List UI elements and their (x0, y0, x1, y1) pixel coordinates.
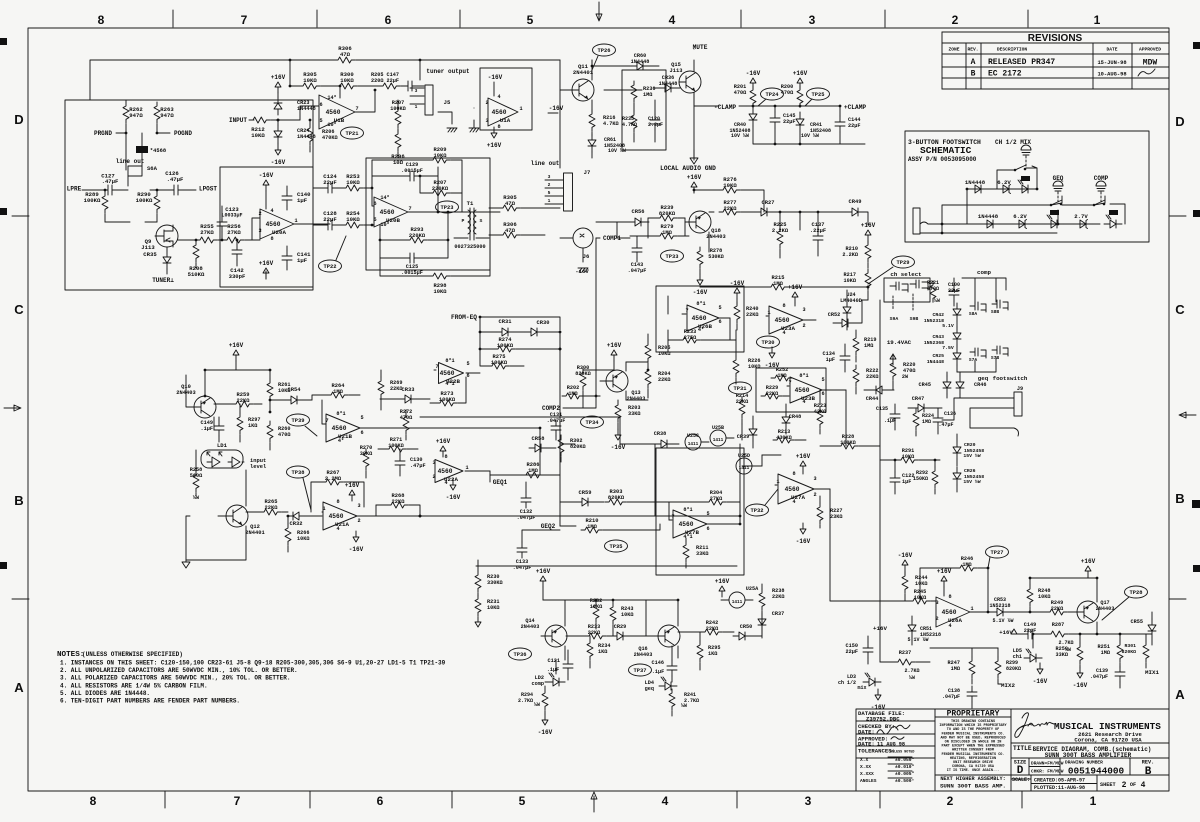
svg-text:3: 3 (813, 476, 816, 482)
resistor R256 (223, 237, 244, 243)
svg-text:U25A: U25A (746, 586, 759, 592)
bottom center arrow (591, 792, 597, 812)
svg-text:CR59: CR59 (579, 490, 592, 496)
svg-text:R301: R301 (1124, 643, 1136, 649)
power +16V Q18 (691, 182, 697, 193)
footswitch box (905, 131, 1149, 242)
svg-text:10KΩ: 10KΩ (297, 536, 309, 542)
power +16V Q10 (233, 350, 239, 361)
footswitch switch S1 (1014, 169, 1017, 172)
svg-text:U1A: U1A (500, 117, 511, 124)
svg-text:3: 3 (258, 228, 261, 234)
box preamp input section (65, 100, 313, 290)
svg-text:REVISIONS: REVISIONS (1028, 33, 1083, 44)
svg-text:J9: J9 (1017, 386, 1023, 392)
capacitor C132 (521, 492, 531, 508)
svg-text:1MΩ: 1MΩ (528, 468, 538, 474)
svg-text:947Ω: 947Ω (160, 112, 174, 119)
svg-text:CR54: CR54 (288, 387, 302, 393)
diode CR39 (749, 423, 757, 441)
resistor R246 (956, 565, 977, 571)
diode CR55 (1148, 619, 1156, 637)
power +16V U21A (349, 490, 355, 501)
svg-text:470Ω: 470Ω (781, 90, 793, 96)
power -16V U21A (353, 531, 359, 542)
diode CR51 (908, 619, 916, 637)
test point TP21 (341, 127, 364, 139)
footswitch switch S2 (1050, 204, 1053, 207)
svg-text:22µF: 22µF (846, 649, 858, 655)
svg-text:5: 5 (527, 13, 534, 27)
svg-text:1N52318: 1N52318 (924, 318, 944, 324)
capacitor C128 (322, 220, 338, 230)
svg-text:33KΩ: 33KΩ (696, 551, 708, 557)
wire mixer bus stubs (655, 444, 762, 516)
resistor R242 (701, 629, 722, 635)
resistor R239 (656, 215, 677, 221)
svg-text:+16V: +16V (793, 70, 808, 77)
resistor R240 (734, 302, 740, 323)
diode CR32 (287, 512, 305, 520)
power -16V LD3 (875, 689, 881, 700)
svg-text:4. ALL RESISTORS ARE 1/4W 5% C: 4. ALL RESISTORS ARE 1/4W 5% CARBON FILM… (60, 682, 208, 689)
wire mixer verticals (740, 390, 846, 524)
resistor R275 (488, 363, 509, 369)
diode CR47 (912, 404, 930, 412)
power -16V Q13 (615, 429, 621, 440)
svg-text:22µF: 22µF (783, 119, 795, 125)
svg-text:6: 6 (706, 526, 709, 532)
svg-text:4560: 4560 (492, 109, 507, 116)
box mute section (622, 70, 666, 150)
svg-text:8: 8 (270, 236, 273, 242)
resistor R212 (249, 117, 270, 123)
svg-text:1N52368: 1N52368 (924, 340, 944, 346)
resistor R233 (679, 337, 700, 343)
wire comp1 bus (596, 218, 689, 238)
wire Q16 base link (646, 600, 654, 636)
svg-text:22KΩ: 22KΩ (724, 206, 738, 212)
svg-text:.1µF: .1µF (884, 418, 896, 424)
svg-text:4: 4 (802, 399, 805, 405)
svg-text:-16V: -16V (746, 70, 761, 77)
diode CR33 (399, 395, 417, 403)
svg-text:¼W: ¼W (681, 703, 687, 709)
svg-text:2N4403: 2N4403 (634, 652, 653, 658)
diode CR56 (629, 218, 647, 226)
resistor R207 (395, 107, 401, 128)
svg-text:430KΩ: 430KΩ (776, 435, 792, 441)
svg-text:470Ω: 470Ω (734, 90, 746, 96)
svg-text:5: 5 (548, 190, 551, 196)
svg-text:(UNLESS OTHERWISE SPECIFIED): (UNLESS OTHERWISE SPECIFIED) (82, 651, 183, 658)
power +16V U26A (941, 576, 947, 587)
diode CR40 (749, 108, 757, 126)
test point TP23 (436, 201, 459, 213)
svg-text:4*1: 4*1 (445, 381, 454, 387)
test point TP24 (761, 88, 784, 100)
footswitch switch S3 (1093, 204, 1096, 207)
svg-text:COMP2: COMP2 (542, 405, 560, 412)
svg-text:TP30: TP30 (762, 340, 775, 346)
wire U27A to U26A (830, 489, 905, 601)
power +16V U25A (719, 586, 725, 597)
resistor R251 (1117, 641, 1123, 662)
transistor Q14 (545, 625, 567, 647)
svg-text:5: 5 (373, 217, 376, 223)
svg-text:.047µF: .047µF (1090, 674, 1108, 680)
resistor R219 (853, 334, 859, 355)
svg-text:22µF: 22µF (948, 288, 960, 294)
svg-text:4.7KΩ: 4.7KΩ (603, 121, 619, 127)
svg-text:geq: geq (645, 686, 654, 692)
svg-text:6.2V: 6.2V (1013, 213, 1027, 220)
diode CR35 (163, 251, 171, 269)
box mixer lower section (656, 448, 744, 575)
svg-text:1MΩ: 1MΩ (962, 562, 971, 568)
svg-text:-16V: -16V (611, 444, 626, 451)
power +16V U22A (440, 446, 446, 457)
svg-text:6: 6 (821, 391, 824, 397)
box U20B section (366, 158, 490, 270)
svg-text:1: 1 (415, 104, 418, 110)
svg-text:geq: geq (978, 375, 989, 382)
test point TP30 (757, 336, 780, 348)
LED LD4 (659, 682, 677, 690)
diode CR43 (953, 327, 961, 345)
diode CR44 (870, 386, 888, 394)
resistor R255 (196, 237, 217, 243)
svg-text:SCHEMATIC: SCHEMATIC (920, 145, 972, 156)
resistor R245 (909, 598, 930, 604)
svg-text:2.7KΩ: 2.7KΩ (518, 698, 533, 704)
resistor R287 (1047, 631, 1068, 637)
svg-text:CR50: CR50 (740, 624, 752, 630)
svg-text:7: 7 (234, 794, 241, 808)
diode CR29 (611, 632, 629, 640)
svg-text:SCALE:: SCALE: (1012, 777, 1030, 783)
svg-text:DATE:: DATE: (858, 729, 875, 736)
diode CR31 (496, 328, 514, 336)
svg-text:22KΩ: 22KΩ (706, 626, 718, 632)
resistor R297 (237, 413, 243, 434)
resistor R236 (631, 81, 637, 102)
svg-text:1411: 1411 (713, 438, 724, 443)
op-amp U26B (687, 305, 719, 331)
resistor R214 (739, 397, 745, 418)
svg-text:820KΩ: 820KΩ (608, 495, 625, 501)
svg-text:22µF: 22µF (1024, 628, 1036, 634)
wire comp bus (567, 238, 596, 408)
resistor R272 (403, 413, 409, 434)
footswitch wiring (920, 166, 1125, 233)
svg-text:CR58: CR58 (532, 436, 545, 442)
op-amp U25A (729, 592, 745, 608)
svg-text:220KΩ: 220KΩ (432, 186, 449, 192)
capacitor C135 (890, 408, 900, 424)
resistor R274 (494, 346, 515, 352)
svg-text:+16V: +16V (861, 222, 876, 229)
svg-text:TP38: TP38 (292, 470, 305, 476)
svg-text:1N4448: 1N4448 (978, 213, 999, 220)
resistor R209 (429, 157, 450, 163)
svg-text:1: 1 (548, 198, 551, 204)
diode CR59 (576, 498, 594, 506)
left center arrow (4, 405, 21, 411)
svg-text:TP33: TP33 (666, 254, 679, 260)
power -16V clamp (750, 78, 756, 89)
capacitor C144 (835, 116, 845, 132)
svg-text:MUTE: MUTE (693, 44, 708, 51)
svg-text:5: 5 (519, 794, 526, 808)
svg-text:10KΩ: 10KΩ (658, 351, 670, 357)
resistor R235 (631, 111, 637, 132)
svg-text:1: 1 (970, 606, 973, 612)
svg-text:-16V: -16V (898, 552, 913, 559)
power +16V U1A (491, 127, 497, 138)
svg-text:1: 1 (294, 218, 297, 224)
svg-text:GEQ1: GEQ1 (493, 479, 508, 486)
footswitch LED row3 (1104, 220, 1122, 228)
svg-text:15-JUN-98: 15-JUN-98 (1097, 60, 1126, 66)
svg-text:15V ½W: 15V ½W (963, 453, 980, 459)
svg-text:NEXT HIGHER ASSEMBLY:: NEXT HIGHER ASSEMBLY: (940, 776, 1005, 782)
svg-text:COMP1: COMP1 (603, 235, 621, 242)
svg-text:1: 1 (776, 479, 779, 485)
svg-text:+16V: +16V (607, 342, 622, 349)
svg-text:APPROVED: APPROVED (1139, 47, 1161, 53)
svg-text:4: 4 (270, 208, 273, 214)
svg-text:CR20: CR20 (964, 442, 976, 448)
op-amp U25B (710, 430, 726, 446)
LED LD5 (1024, 654, 1042, 662)
svg-text:.47µF: .47µF (410, 463, 426, 469)
diode CR46 (956, 376, 964, 394)
resistor R286 (522, 472, 543, 478)
transistor Q9 J113 (156, 225, 178, 247)
svg-text:7: 7 (435, 364, 438, 370)
svg-text:10V ½W: 10V ½W (731, 133, 749, 139)
svg-text:6: 6 (360, 430, 363, 436)
svg-text:DATE:: DATE: (858, 741, 875, 748)
wire TP29 link (868, 267, 893, 284)
svg-text:1MΩ: 1MΩ (777, 373, 786, 379)
optocoupler LD1 (201, 450, 243, 468)
svg-text:TP24: TP24 (766, 92, 780, 98)
svg-text:PLOTTED:11-AUG-98: PLOTTED:11-AUG-98 (1034, 785, 1085, 791)
svg-text:.1µF: .1µF (547, 667, 559, 673)
svg-text:470Ω: 470Ω (400, 415, 412, 421)
svg-text:8: 8 (98, 13, 105, 27)
svg-text:7: 7 (355, 106, 358, 112)
switch S9B fet (910, 280, 928, 290)
op-amp U21A (323, 502, 357, 530)
svg-text:5: 5 (821, 377, 824, 383)
svg-text:-16V: -16V (538, 729, 553, 736)
svg-text:S8B: S8B (991, 309, 1000, 315)
svg-text:CR37: CR37 (772, 611, 784, 617)
svg-text:510KΩ: 510KΩ (188, 271, 205, 278)
svg-text:5: 5 (466, 361, 469, 367)
transistor Q17 (1077, 601, 1099, 623)
svg-text:1411: 1411 (688, 442, 699, 447)
svg-text:CR44: CR44 (866, 396, 878, 402)
diode CR30 (525, 328, 543, 336)
edge registration marks (0, 38, 7, 45)
resistor R260 (267, 421, 273, 442)
resistor R254 (342, 222, 363, 228)
resistor R205b (645, 341, 651, 362)
svg-text:4: 4 (336, 526, 339, 532)
svg-text:8*1: 8*1 (696, 301, 705, 307)
power -16V U26A (902, 560, 908, 571)
svg-text:10KΩ: 10KΩ (346, 179, 360, 186)
test point TP26 (593, 44, 616, 56)
svg-text:820KΩ: 820KΩ (1006, 666, 1021, 672)
svg-text:3: 3 (809, 13, 816, 27)
svg-text:27KΩ: 27KΩ (200, 229, 214, 236)
diode CR52 (836, 319, 854, 327)
svg-text:INPUT: INPUT (229, 117, 247, 124)
svg-text:1N4448: 1N4448 (631, 59, 650, 65)
switch S8B fet (992, 300, 1008, 310)
svg-text:2: 2 (258, 211, 261, 217)
svg-text:S7B: S7B (991, 355, 1000, 361)
svg-text:LPRE: LPRE (67, 186, 82, 193)
power +16V Q17 (1085, 566, 1091, 577)
svg-text:1N4448: 1N4448 (659, 81, 678, 87)
box U1A section (480, 68, 532, 130)
svg-text:PROPRIETARY: PROPRIETARY (947, 710, 1000, 719)
svg-text:CR48: CR48 (789, 414, 801, 420)
svg-text:100KΩ: 100KΩ (388, 443, 404, 449)
capacitor C139 (1115, 666, 1125, 682)
svg-text:line out: line out (531, 160, 560, 167)
resistor R210 (865, 241, 871, 262)
svg-text:±0.005": ±0.005" (895, 771, 915, 777)
svg-text:4560: 4560 (785, 486, 800, 493)
power -16V U22A (450, 479, 456, 490)
resistor R303 (605, 499, 626, 505)
svg-text:MIX2: MIX2 (1001, 682, 1015, 689)
transistor Q12 (226, 505, 248, 527)
resistor R204 (645, 367, 651, 388)
svg-text:3: 3 (935, 600, 938, 606)
svg-text:4560: 4560 (380, 209, 395, 216)
capacitor C133 (517, 542, 527, 558)
capacitor C134 (840, 350, 850, 366)
svg-text:2: 2 (485, 100, 488, 106)
svg-text:27KΩ: 27KΩ (710, 496, 722, 502)
right center arrow (1179, 412, 1196, 418)
resistor R224 (913, 409, 919, 430)
LED LD3 (863, 678, 881, 686)
svg-text:2: 2 (952, 13, 959, 27)
resistor R233b (585, 633, 606, 639)
svg-text:CR25: CR25 (932, 353, 944, 359)
svg-text:10KΩ: 10KΩ (621, 612, 633, 618)
power -16V U20A (263, 180, 269, 191)
svg-text:8*1: 8*1 (683, 507, 692, 513)
Fender logo (1015, 713, 1054, 738)
svg-text:4560: 4560 (438, 468, 453, 475)
LED LD2 (547, 678, 565, 686)
svg-text:CR27: CR27 (762, 200, 775, 206)
svg-text:100KΩ: 100KΩ (136, 197, 153, 204)
svg-text:PRGND: PRGND (94, 130, 112, 137)
power +16V CR23 (275, 82, 281, 93)
svg-text:5.1V: 5.1V (942, 323, 954, 329)
svg-text:S8A: S8A (969, 311, 978, 317)
svg-text:J113: J113 (141, 244, 155, 251)
ground Q12 (182, 562, 190, 568)
box ch select (884, 278, 930, 302)
resistor R267 (322, 479, 343, 485)
wire bus top line-out (559, 60, 561, 168)
capacitor C130 (395, 455, 405, 471)
svg-text:1MΩ: 1MΩ (568, 391, 577, 397)
svg-text:1MΩ: 1MΩ (333, 389, 343, 395)
svg-text:7: 7 (788, 380, 791, 386)
svg-text:Z39752.DBC: Z39752.DBC (866, 716, 900, 723)
power +16V U27A (800, 461, 806, 472)
svg-text:.47µF: .47µF (102, 178, 119, 185)
capacitor C137 (813, 230, 823, 246)
op-amp U23B (790, 377, 822, 403)
svg-text:+16V: +16V (536, 568, 551, 575)
op-amp U25D (736, 458, 752, 474)
svg-text:TP29: TP29 (897, 260, 910, 266)
svg-text:3: 3 (432, 460, 435, 466)
svg-text:C146: C146 (652, 660, 664, 666)
svg-text:2W: 2W (902, 374, 909, 380)
resistor R205 cap C147 (379, 83, 400, 89)
svg-text:EC 2172: EC 2172 (988, 70, 1022, 79)
svg-text:ASSY P/N 0053095000: ASSY P/N 0053095000 (908, 156, 977, 163)
svg-text:2: 2 (548, 182, 551, 188)
svg-text:2: 2 (357, 518, 360, 524)
svg-text:4560: 4560 (329, 513, 344, 520)
resistor R265 (260, 509, 281, 515)
svg-text:X.X: X.X (860, 757, 869, 763)
svg-text:947Ω: 947Ω (129, 112, 143, 119)
svg-text:100KΩ: 100KΩ (439, 397, 456, 403)
svg-text:6: 6 (385, 13, 392, 27)
svg-text:-16V: -16V (575, 268, 589, 275)
svg-text:1µF: 1µF (826, 357, 835, 363)
svg-text:LOCAL AUDIO GND: LOCAL AUDIO GND (660, 165, 716, 172)
capacitor C146 (667, 660, 677, 676)
svg-text:22µF: 22µF (323, 216, 337, 223)
svg-text:22KΩ: 22KΩ (772, 594, 784, 600)
svg-text:P: P (462, 218, 465, 224)
svg-text:½W: ½W (934, 298, 940, 304)
svg-text:0051944000: 0051944000 (1068, 766, 1125, 777)
svg-text:SUNN 300T BASS AMPLIFIER: SUNN 300T BASS AMPLIFIER (1045, 752, 1132, 759)
capacitor C120 (650, 114, 660, 130)
resistor R300b (580, 369, 586, 390)
svg-text:comp: comp (977, 269, 991, 276)
resistor R259 (232, 401, 253, 407)
test point TP27 (986, 546, 1009, 558)
resistor R264 (327, 392, 348, 398)
resistor R301 (1143, 641, 1149, 662)
power +16V Q13 (611, 350, 617, 361)
wire U21B output rail (522, 428, 540, 475)
diode CR24 (274, 125, 282, 143)
svg-text:DRAWN=FM/MDW: DRAWN=FM/MDW (1031, 761, 1064, 767)
wire R248 top rail (1030, 577, 1097, 579)
